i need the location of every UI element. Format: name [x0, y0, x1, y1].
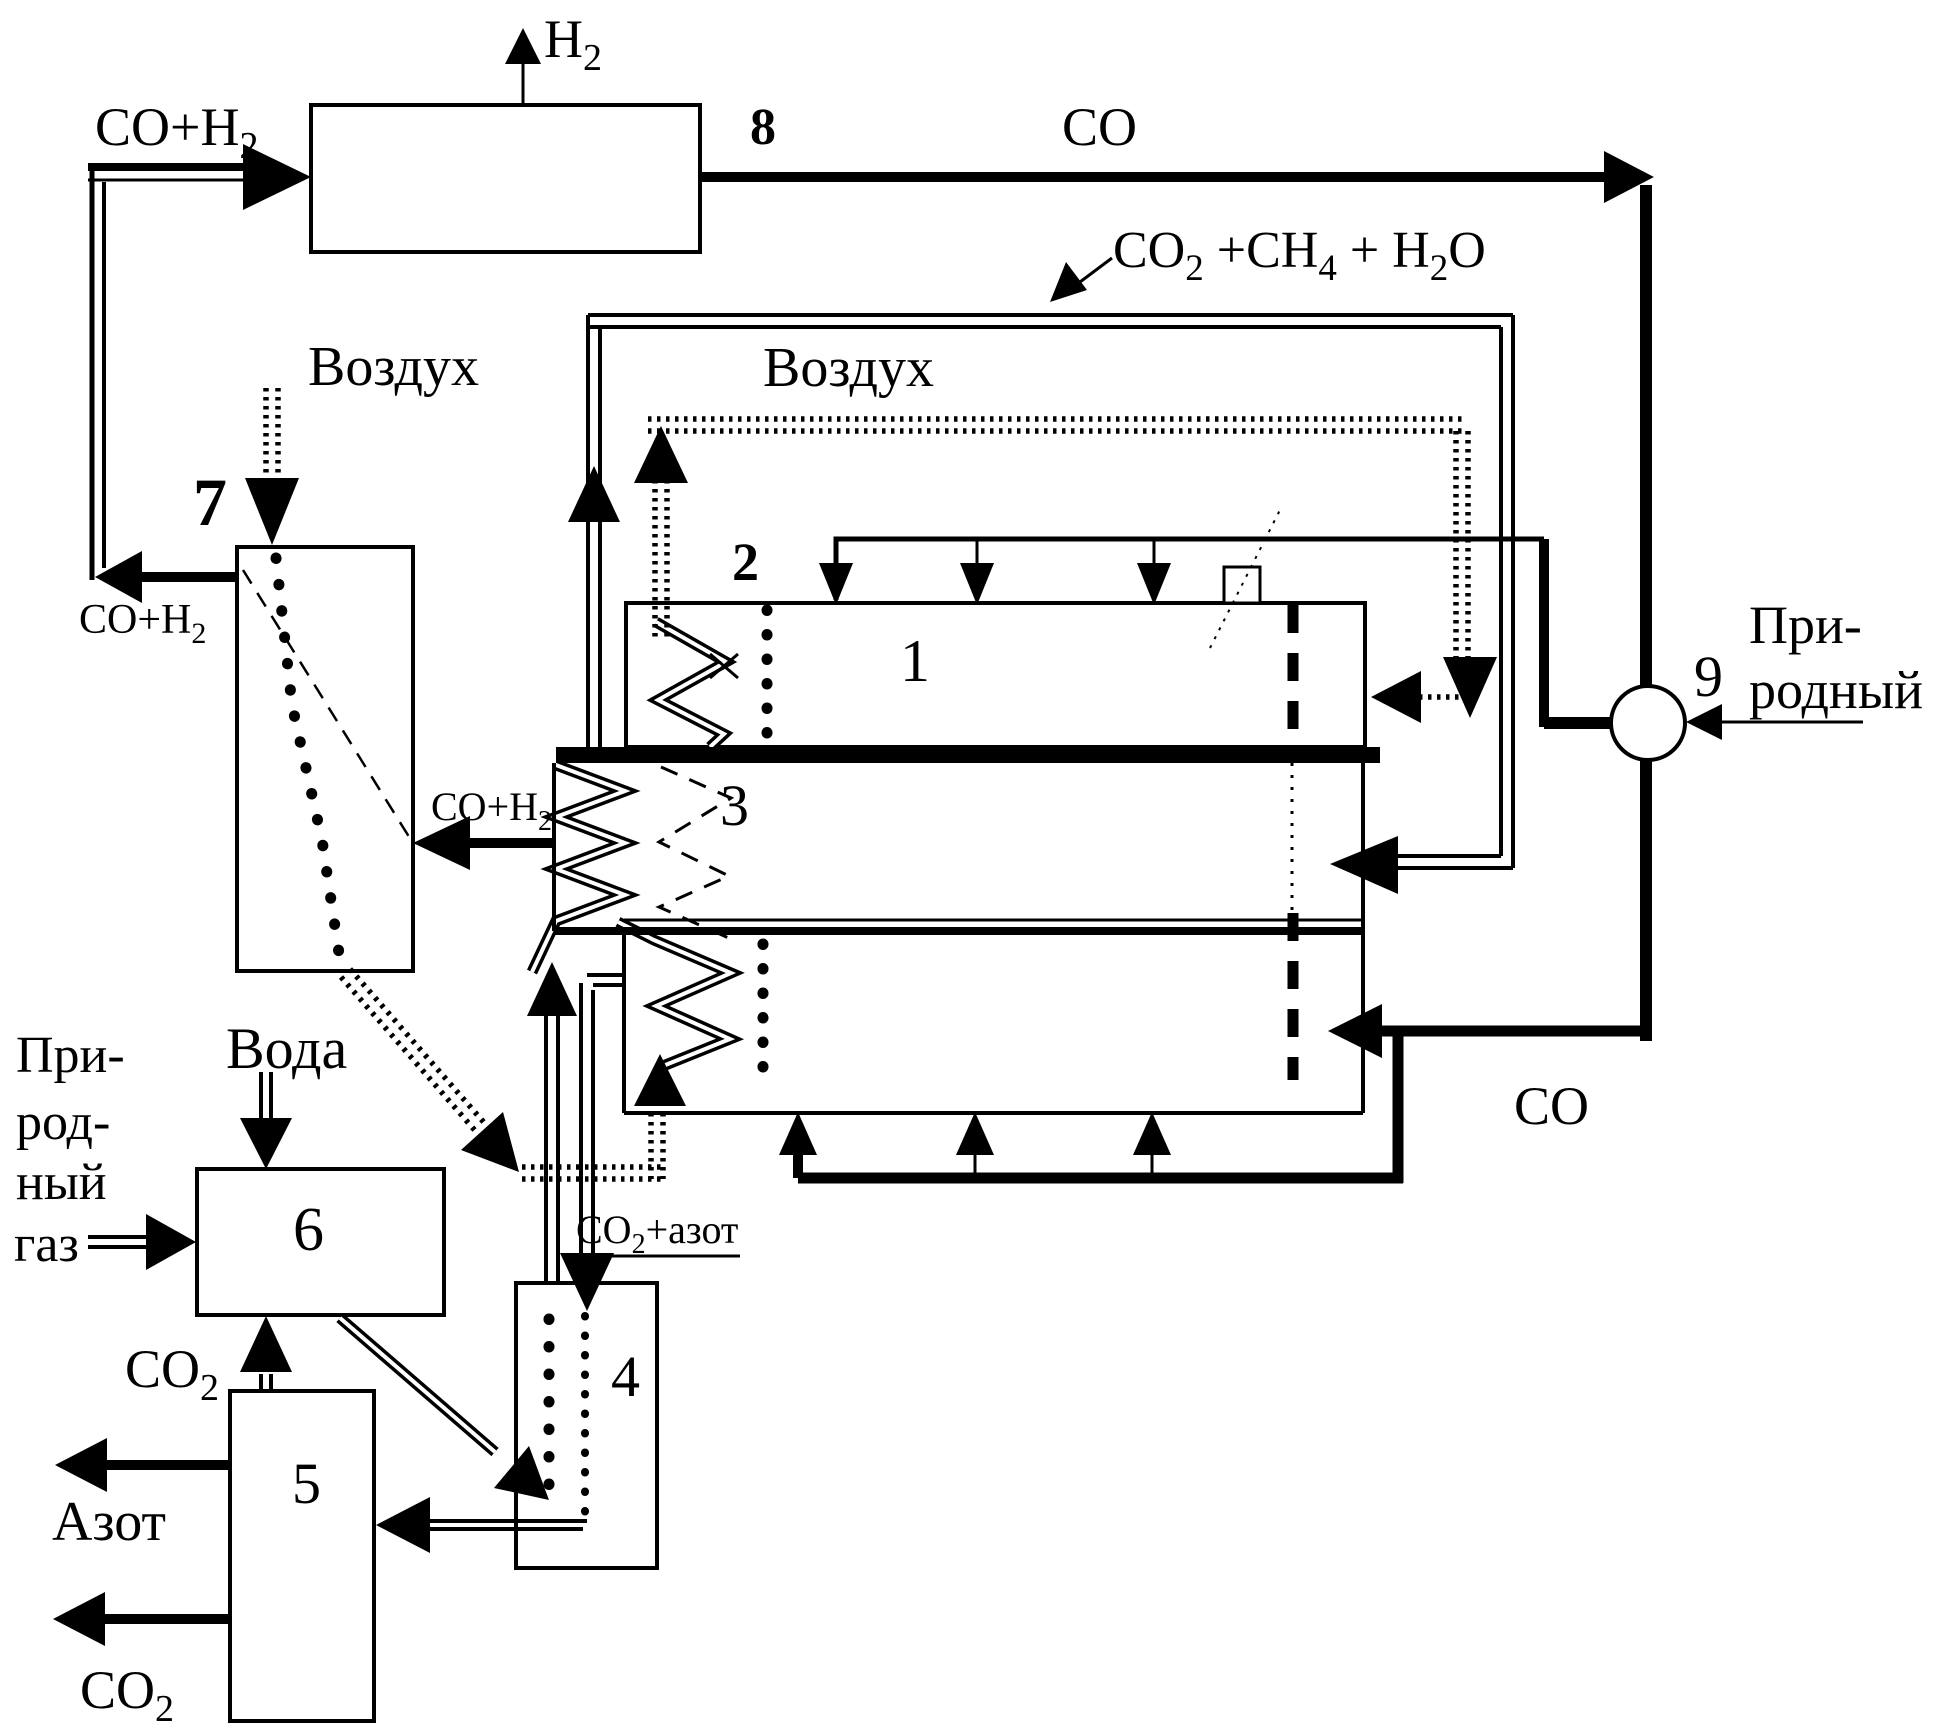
wire riser double line left [92, 165, 104, 580]
arrow recycle into middle box [1330, 836, 1398, 894]
H2 outlet arrow [505, 28, 541, 105]
leader arrow to recycle pipe [1050, 258, 1112, 302]
membrane box 7 [237, 547, 413, 971]
svg-text:CO+H2: CO+H2 [95, 97, 258, 167]
thin dotted partition in box 3 [1291, 763, 1294, 918]
svg-text:3: 3 [720, 773, 749, 838]
air pipe dotted right drop [1443, 431, 1497, 718]
svg-text:CO: CO [1514, 1076, 1589, 1136]
arrow CO up into bottom box a [779, 1112, 817, 1178]
svg-text:род-: род- [16, 1094, 110, 1151]
wire CO+H2 into box 8 [88, 144, 311, 210]
pipe from box 6 to box 4 diagonal [340, 1318, 549, 1500]
svg-text:4: 4 [611, 1344, 640, 1409]
coil in box 1 [656, 622, 738, 747]
label Prirodny [1749, 595, 1923, 720]
arrow CO+H2 out of box 3 [413, 816, 556, 870]
svg-text:6: 6 [293, 1196, 324, 1264]
svg-text:8: 8 [750, 99, 776, 156]
arrow natural gas into mixer [1686, 704, 1863, 740]
dotted line in box 4 b [581, 1316, 589, 1520]
dotted line in box 4 a [544, 1319, 555, 1490]
svg-text:Воздух: Воздух [763, 337, 934, 399]
arrow gas into box 1 a [819, 563, 853, 605]
arrow air into box 7 [245, 388, 299, 545]
box 3 bottom edge [554, 763, 1363, 1113]
dashed partition in bottom box [1288, 913, 1299, 1080]
vessel box 4 [516, 1283, 657, 1568]
air pipe dotted top [648, 419, 1462, 431]
svg-text:При-: При- [16, 1027, 125, 1084]
box 8 separator [311, 105, 700, 252]
label Prirodny gaz left [14, 1027, 125, 1273]
dashed partition in box 1 [1288, 605, 1299, 747]
sensor box on box 1 [1224, 567, 1260, 603]
arrow CO+H2 from box 7 to riser [95, 551, 238, 603]
reformer box 6 [197, 1169, 444, 1315]
natural gas feed line over box 1 [836, 539, 1616, 727]
svg-text:9: 9 [1694, 644, 1723, 709]
svg-text:Азот: Азот [52, 1491, 166, 1553]
svg-text:Воздух: Воздух [308, 336, 479, 398]
arrow CO up into bottom box b [956, 1112, 994, 1178]
wire CO thick top [700, 151, 1654, 1041]
svg-text:Вода: Вода [226, 1016, 347, 1081]
mixer circle 9 [1611, 686, 1685, 760]
svg-text:CO+H2: CO+H2 [79, 597, 206, 650]
dotted membrane line in box 7 [276, 558, 340, 960]
svg-text:1: 1 [900, 628, 930, 694]
dashed diagonal in box 7 [243, 570, 411, 840]
arrow nitrogen out [55, 1438, 230, 1492]
pipe from box 4 up to coil [527, 962, 577, 1283]
svg-text:газ: газ [14, 1216, 79, 1273]
svg-text:5: 5 [292, 1451, 321, 1516]
reactor box 1 [626, 603, 1365, 747]
arrow CO2 from box 5 to box 6 [240, 1316, 292, 1391]
pipe from box 4 to box 5 [376, 1497, 587, 1553]
air dotted pipe to bottom box [522, 1113, 663, 1179]
wire CO into bottom box right [1328, 1004, 1646, 1058]
reactor box bottom [624, 931, 1363, 1113]
label CO2+azot [570, 1207, 740, 1260]
arrow up on recycle pipe [568, 466, 620, 522]
thick separator band [556, 747, 1380, 763]
arrow CO up into bottom box c [1133, 1112, 1171, 1178]
coil in bottom box [618, 922, 731, 1106]
wire CO under bottom box [798, 1031, 1403, 1183]
air dotted diagonal from box 7 [341, 969, 519, 1172]
coil in box 3 [532, 765, 625, 972]
partition dotted line in bottom box [758, 944, 769, 1077]
svg-text:7: 7 [193, 464, 227, 540]
pipe CO2+azot from bottom box to box 4 [560, 975, 624, 1311]
svg-text:2: 2 [732, 532, 759, 592]
arrow air up from box 1 coil [634, 426, 688, 640]
svg-text:CO: CO [1062, 97, 1137, 157]
svg-text:ный: ный [16, 1154, 107, 1211]
arrow gas into box 1 b [960, 539, 994, 605]
svg-text:При-: При- [1749, 595, 1862, 655]
dashed coil in box 3 [659, 767, 731, 939]
arrow air into box 1 right [1371, 671, 1462, 723]
arrow gas into box 1 c [1137, 539, 1171, 605]
heat exchanger box 3 [554, 763, 1363, 931]
svg-text:родный: родный [1749, 660, 1923, 720]
separator box 5 [230, 1391, 374, 1721]
partition dotted line 2 in box 1 [762, 610, 773, 744]
arrow water into box 6 [240, 1072, 292, 1169]
recycle pipe double line loop [588, 315, 1513, 868]
sensor dotted diagonal [1210, 506, 1282, 648]
arrow CO2 out [53, 1592, 230, 1646]
arrow gas into box 6 [88, 1214, 196, 1270]
